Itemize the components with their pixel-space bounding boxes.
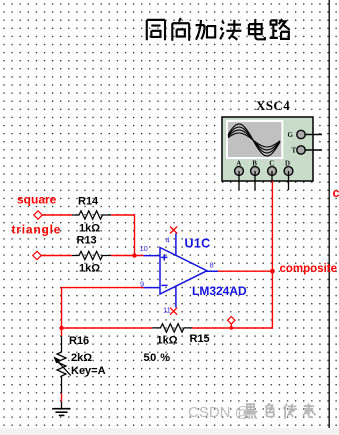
svg-text:1kΩ: 1kΩ [79, 263, 100, 275]
svg-text:1kΩ: 1kΩ [157, 335, 178, 347]
svg-text:R16: R16 [69, 335, 89, 347]
svg-text:R14: R14 [78, 196, 99, 208]
svg-text:square: square [17, 193, 57, 207]
svg-text:G: G [288, 131, 294, 139]
svg-text:50 %: 50 % [144, 352, 171, 364]
svg-text:8: 8 [210, 261, 214, 270]
svg-text:R15: R15 [190, 333, 210, 345]
svg-text:4: 4 [166, 236, 170, 245]
svg-text:U1C: U1C [185, 237, 211, 251]
svg-text:T: T [292, 147, 297, 155]
svg-text:triangle: triangle [12, 223, 62, 237]
svg-text:1kΩ: 1kΩ [79, 223, 100, 235]
svg-text:R13: R13 [77, 235, 97, 247]
svg-text:9: 9 [140, 279, 144, 288]
svg-text:2kΩ: 2kΩ [71, 352, 92, 364]
svg-text:co: co [333, 186, 339, 200]
svg-text:Key=A: Key=A [71, 365, 106, 377]
svg-text:CSDN @: CSDN @ [188, 404, 250, 421]
svg-text:11: 11 [163, 306, 171, 315]
svg-text:XSC4: XSC4 [256, 98, 290, 113]
svg-text:composite: composite [280, 263, 338, 275]
svg-text:10: 10 [140, 244, 148, 253]
svg-text:LM324AD: LM324AD [192, 284, 247, 298]
